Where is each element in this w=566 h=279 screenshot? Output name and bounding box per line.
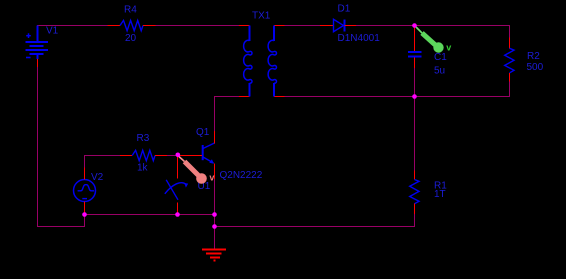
svg-text:Q2N2222: Q2N2222 [220, 170, 263, 181]
voltage marker salmon probe [178, 156, 215, 184]
voltage marker green probe [415, 26, 452, 53]
node emitter rail [212, 212, 217, 217]
wire collector lead up [214, 97, 216, 132]
svg-text:TX1: TX1 [252, 11, 271, 22]
wire rail A switch to emitter node [178, 214, 215, 216]
svg-text:20: 20 [125, 33, 137, 44]
node cap bottom [412, 94, 417, 99]
wire R2 top corner down [509, 26, 511, 38]
wire node out to R2 top [415, 25, 511, 27]
svg-text:5u: 5u [434, 66, 445, 77]
wire emitter node to ground node [214, 215, 216, 227]
resistor R1 [410, 171, 419, 215]
battery V1 [26, 26, 49, 60]
node out top [412, 23, 417, 28]
node base [176, 153, 181, 158]
svg-text:Q1: Q1 [196, 127, 210, 138]
svg-text:v: v [209, 172, 214, 182]
wire R2 bottom to corner [509, 82, 511, 97]
svg-text:1T: 1T [434, 189, 446, 200]
wire D1 cathode to node out [356, 25, 415, 27]
capacitor C1 [408, 26, 422, 69]
svg-text:V1: V1 [46, 26, 59, 37]
transistor Q1 [178, 131, 215, 179]
svg-text:v: v [446, 42, 451, 52]
node switch bottom [175, 212, 180, 217]
wire battery top to R4 [37, 25, 108, 27]
wire R1 bottom to rail B [215, 214, 415, 227]
pin battery bottom [37, 59, 39, 67]
wire R2 bottom rail to cap node [415, 96, 511, 98]
switch U1 [165, 156, 188, 215]
resistor R2 [505, 38, 514, 82]
wire cap bottom lead [414, 68, 416, 97]
source V2 [74, 168, 96, 215]
resistor R3 [120, 150, 167, 160]
ground [202, 250, 226, 261]
wire battery negative down [38, 67, 85, 227]
wire ground stem [214, 227, 216, 250]
svg-text:C1: C1 [434, 52, 447, 63]
wire TX1 secondary top to D1 [285, 25, 321, 27]
wire cap node down to R1 [414, 97, 416, 171]
wire rail A V2 to switch [85, 214, 178, 216]
node ground rail [212, 224, 217, 229]
svg-text:V2: V2 [91, 172, 104, 183]
svg-text:D1: D1 [338, 4, 351, 15]
svg-text:1k: 1k [137, 163, 149, 174]
svg-text:D1N4001: D1N4001 [338, 33, 381, 44]
svg-text:500: 500 [527, 62, 544, 73]
wire V2 top to base row [85, 156, 121, 168]
resistor R4 [108, 20, 156, 30]
node V2 bottom [82, 212, 87, 217]
wire R4 to TX1 primary top [156, 25, 240, 27]
svg-text:R2: R2 [527, 51, 540, 62]
wire cap node to TX1 secondary bottom [285, 96, 415, 98]
transformer TX1 [239, 26, 285, 97]
wire TX1 primary bottom corner [215, 97, 240, 132]
wire R3 to base node [167, 155, 178, 157]
wire emitter lead down [214, 179, 216, 215]
svg-text:R4: R4 [124, 4, 137, 15]
svg-text:R3: R3 [137, 133, 150, 144]
diode D1 [320, 19, 356, 31]
